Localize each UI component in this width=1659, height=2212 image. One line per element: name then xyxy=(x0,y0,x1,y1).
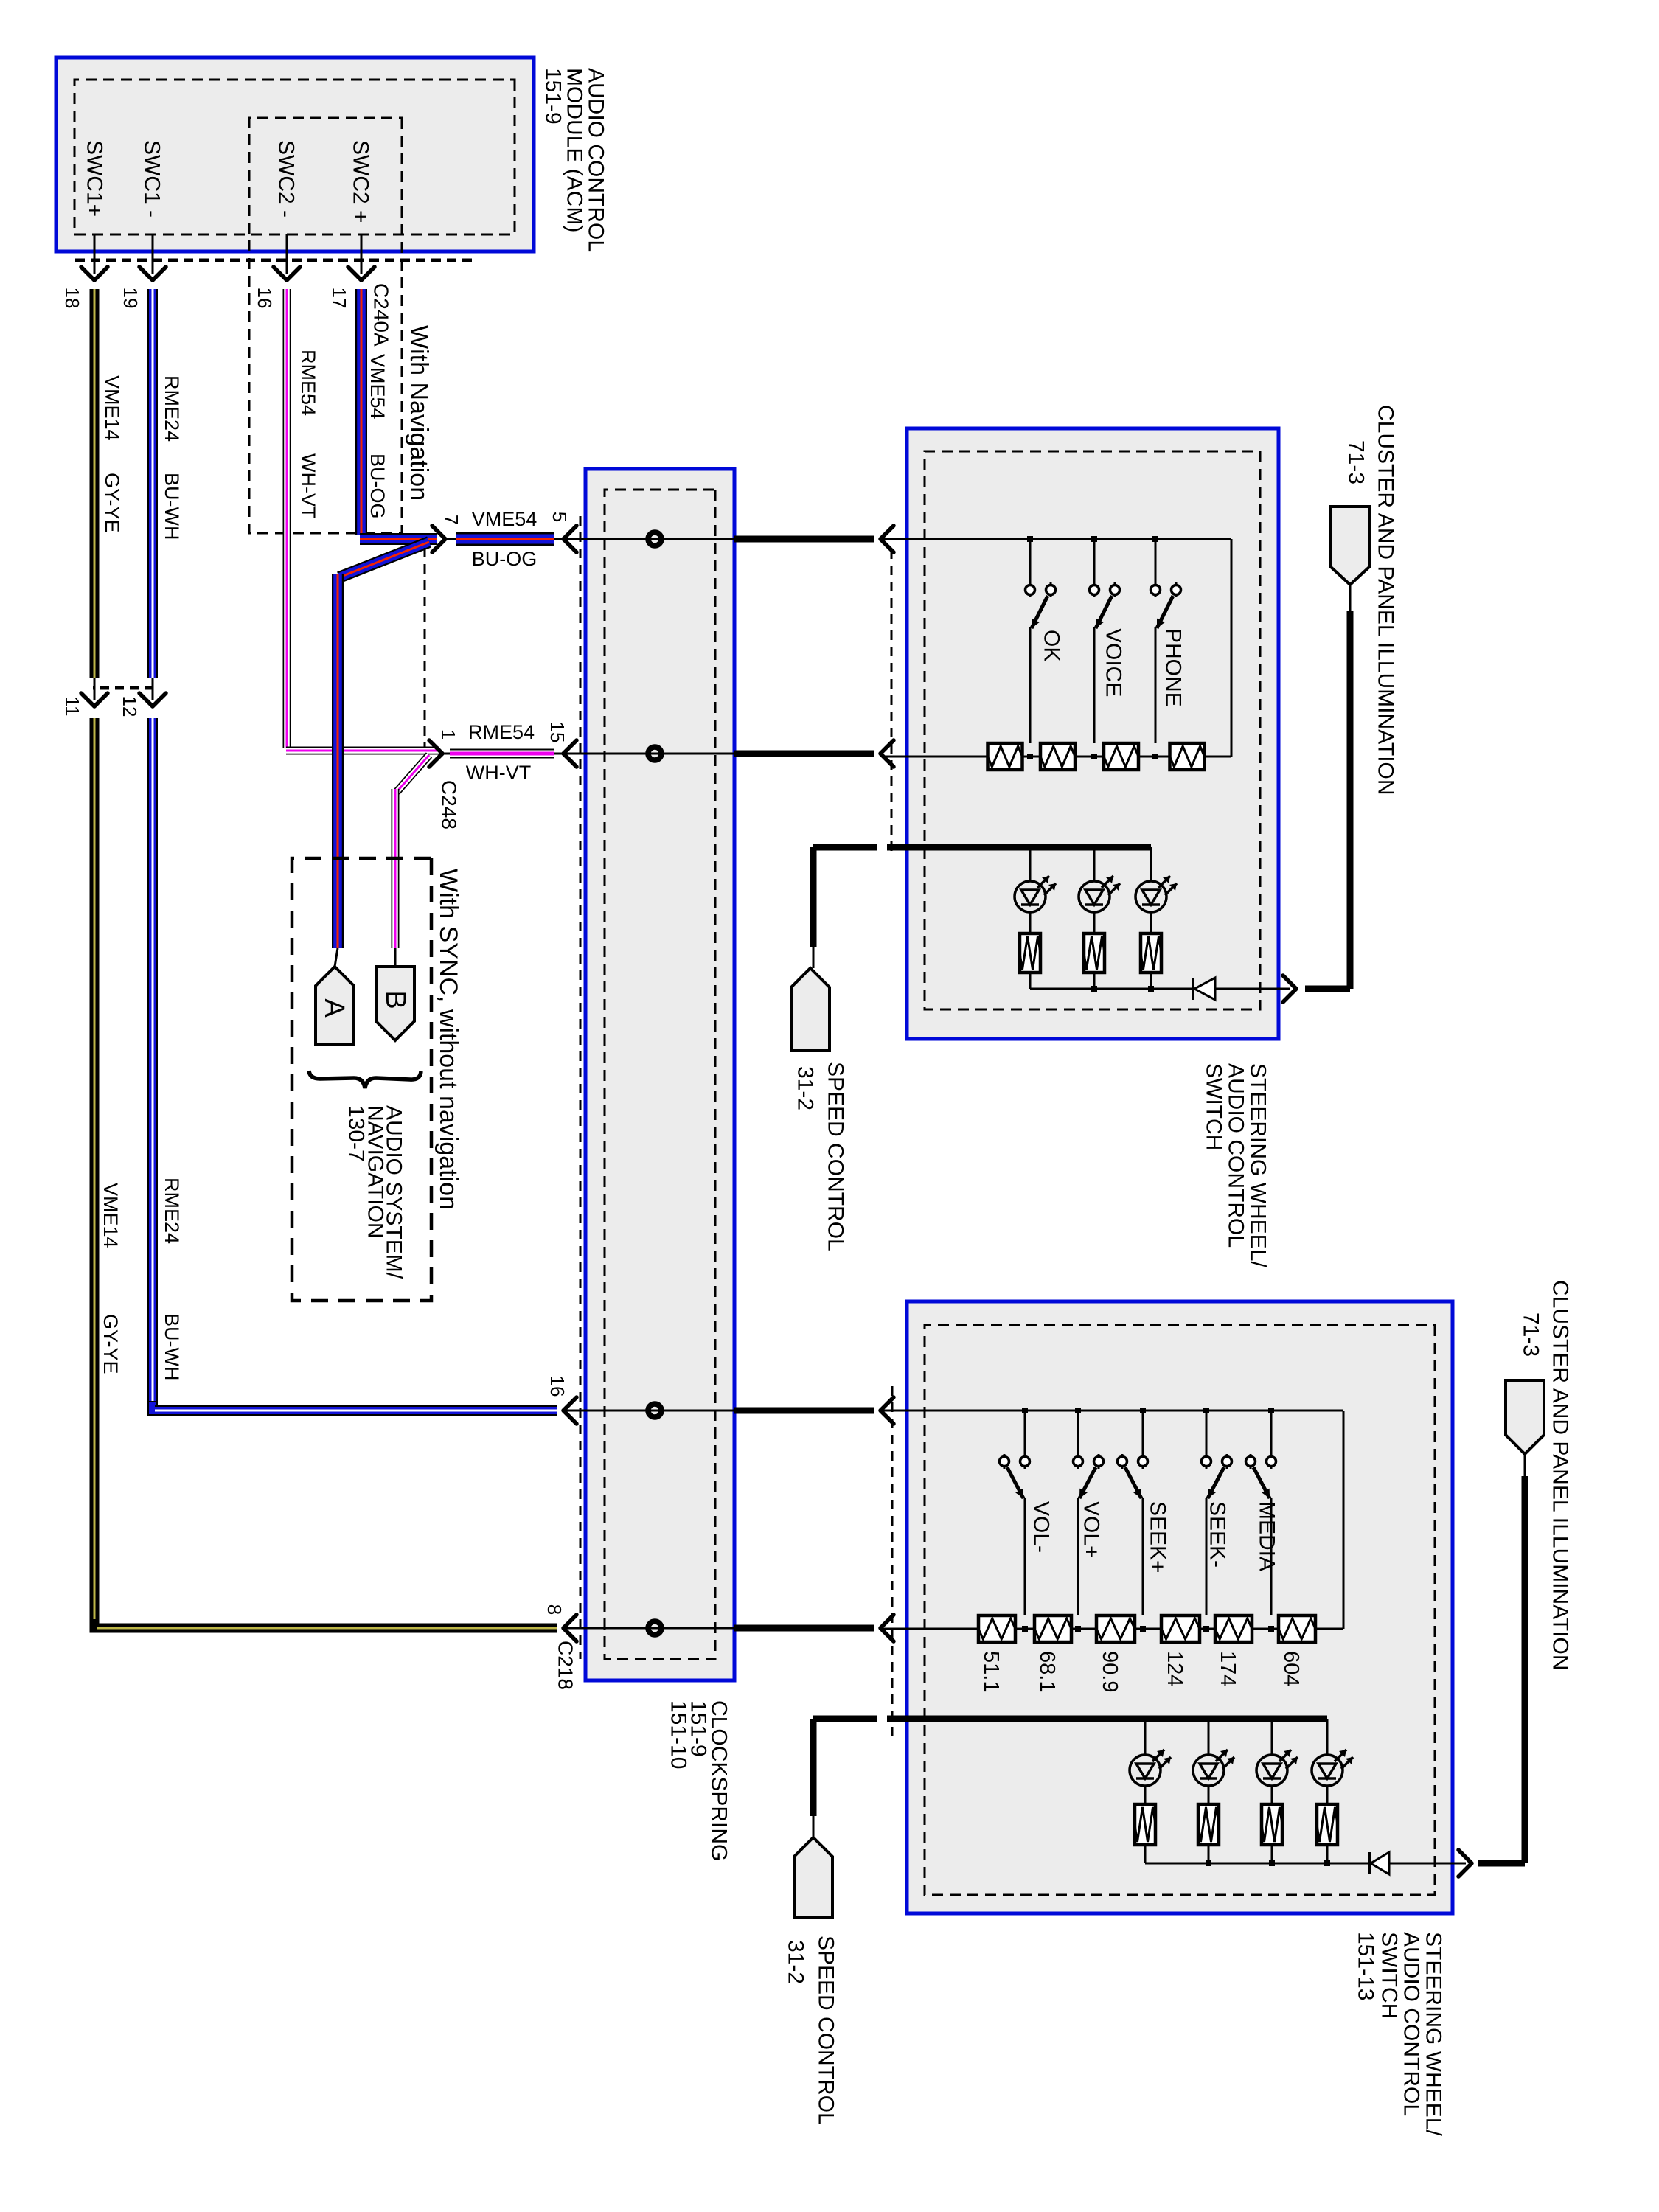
svg-text:VOL+: VOL+ xyxy=(1079,1501,1104,1559)
svg-text:SWITCH: SWITCH xyxy=(1377,1932,1402,2019)
diode (lower) xyxy=(1371,1852,1389,1874)
svg-text:16: 16 xyxy=(254,288,276,309)
ACM title 151-9 xyxy=(541,68,608,252)
svg-text:7: 7 xyxy=(440,515,462,525)
upper box title xyxy=(1202,1063,1270,1267)
switch SEEK+ xyxy=(1118,1408,1148,1632)
pin 15 arrow at clockspring xyxy=(563,740,577,767)
splice arrow 1 xyxy=(429,740,442,767)
connector pin 11 arrow xyxy=(81,678,108,706)
connector A xyxy=(316,967,354,1045)
svg-text:VME14: VME14 xyxy=(100,1183,122,1248)
svg-text:SWC2 -: SWC2 - xyxy=(274,140,299,218)
clockspring path at 731 xyxy=(565,532,874,546)
svg-text:SWC1 -: SWC1 - xyxy=(140,140,164,218)
audio control module (ACM) box xyxy=(56,58,534,251)
svg-text:PHONE: PHONE xyxy=(1161,628,1186,707)
svg-text:C218: C218 xyxy=(554,1641,577,1690)
ACM pin 19 stub and arrow xyxy=(139,234,166,280)
svg-text:OK: OK xyxy=(1040,630,1064,661)
svg-text:51.1: 51.1 xyxy=(979,1651,1003,1692)
svg-text:68.1: 68.1 xyxy=(1035,1651,1059,1692)
clockspring path at 1913 xyxy=(565,1404,874,1417)
svg-text:VME14: VME14 xyxy=(101,375,123,441)
svg-text:BU-OG: BU-OG xyxy=(366,453,389,519)
svg-text:15: 15 xyxy=(546,722,568,743)
LED at 689 xyxy=(1135,847,1177,973)
wire continues arrow xyxy=(880,1615,894,1641)
resistor values xyxy=(979,1651,1303,1692)
svg-text:124: 124 xyxy=(1163,1651,1186,1686)
svg-text:151-10: 151-10 xyxy=(667,1700,691,1769)
ACM connector C240A thick dashed line xyxy=(70,259,472,262)
wire name labels RME24 BU-WH (upper) xyxy=(161,375,183,540)
With SYNC dashed option box xyxy=(292,858,431,1301)
LED at 525 (lower) xyxy=(1256,1719,1298,1845)
cluster and panel illumination connector (upper) xyxy=(1331,507,1369,585)
svg-text:B: B xyxy=(380,990,411,1009)
wire to cluster illumination (lower) xyxy=(1389,1454,1525,1877)
switch MEDIA xyxy=(1246,1408,1276,1632)
svg-text:12: 12 xyxy=(119,696,141,717)
speed control wire (lower) xyxy=(813,1719,877,1837)
svg-text:17: 17 xyxy=(328,288,350,309)
steering wheel audio control switch box (lower) xyxy=(907,1301,1453,1913)
wire continues arrow xyxy=(880,740,894,767)
speed control connector (upper) xyxy=(791,968,829,1051)
svg-text:VOICE: VOICE xyxy=(1102,628,1126,697)
svg-text:31-2: 31-2 xyxy=(784,1940,808,1984)
svg-text:BU-WH: BU-WH xyxy=(161,473,183,540)
wire name labels VME14 GY-YE (lower) xyxy=(100,1183,122,1374)
lower box connector dashed line xyxy=(891,1386,894,1740)
clockspring box xyxy=(585,469,734,1680)
svg-text:RME24: RME24 xyxy=(161,375,183,442)
speed control connector (lower) xyxy=(794,1837,832,1917)
speed control title (upper) xyxy=(793,1062,848,1251)
wire RME24 BU-WH from pin 19 xyxy=(153,289,557,1411)
svg-text:174: 174 xyxy=(1216,1651,1239,1686)
speed control wire (upper) xyxy=(813,847,877,968)
LED at 697 (lower) xyxy=(1130,1719,1171,1845)
wire name labels VME54 BU-OG xyxy=(366,354,389,519)
svg-text:STEERING WHEEL/: STEERING WHEEL/ xyxy=(1422,1932,1446,2136)
wire continues arrow xyxy=(880,526,894,552)
svg-text:VOL-: VOL- xyxy=(1029,1501,1054,1553)
LED at 450 (lower) xyxy=(1312,1719,1353,1845)
switch VOL+ xyxy=(1074,1408,1104,1632)
svg-text:19: 19 xyxy=(119,288,142,309)
svg-text:11: 11 xyxy=(61,697,83,717)
svg-text:VME54: VME54 xyxy=(366,354,389,420)
svg-text:SWC1+: SWC1+ xyxy=(83,140,107,217)
lower LED resistors row wiring xyxy=(1145,1845,1371,1866)
svg-text:SEEK-: SEEK- xyxy=(1206,1501,1230,1568)
svg-text:C240A: C240A xyxy=(370,283,393,347)
LED at 853 xyxy=(1015,847,1056,973)
wire VME54 BU-OG from pin 17 xyxy=(360,289,437,539)
cluster and panel illumination connector (lower) xyxy=(1506,1380,1544,1454)
svg-text:31-2: 31-2 xyxy=(793,1066,818,1110)
speed control title (lower) xyxy=(784,1935,838,2125)
pin 8 arrow at clockspring xyxy=(563,1615,577,1641)
steering wheel audio control switch box (upper) xyxy=(907,428,1279,1039)
svg-text:With Navigation: With Navigation xyxy=(405,325,433,501)
pin 5 arrow at clockspring xyxy=(563,526,577,552)
svg-text:CLUSTER AND PANEL ILLUMINATION: CLUSTER AND PANEL ILLUMINATION xyxy=(1374,405,1398,796)
wire VME54 BU-OG segment to clockspring pin 5 xyxy=(444,538,565,540)
wire name labels RME24 BU-WH (lower) xyxy=(161,1178,183,1380)
svg-text:BU-WH: BU-WH xyxy=(161,1313,183,1380)
svg-text:With SYNC, without navigation: With SYNC, without navigation xyxy=(434,869,462,1210)
svg-text:18: 18 xyxy=(61,288,83,309)
wire continues arrow xyxy=(880,1397,894,1424)
lower box title xyxy=(1354,1932,1446,2136)
wire VME14 GY-YE from pin 18 xyxy=(94,289,557,1628)
connector C248 dashed line xyxy=(424,548,426,748)
svg-text:5: 5 xyxy=(549,512,571,522)
clockspring connector dashed line xyxy=(580,516,582,1659)
branch wire BU-OG to connector A xyxy=(335,542,429,967)
svg-text:151-13: 151-13 xyxy=(1354,1932,1378,2000)
svg-text:RME24: RME24 xyxy=(161,1178,183,1244)
upper LED resistors row wiring xyxy=(1030,973,1194,992)
svg-text:1: 1 xyxy=(437,729,459,740)
svg-text:604: 604 xyxy=(1279,1651,1303,1686)
svg-text:AUDIO CONTROL: AUDIO CONTROL xyxy=(1224,1063,1248,1248)
svg-text:RME54: RME54 xyxy=(468,721,535,743)
svg-text:130-7: 130-7 xyxy=(344,1105,369,1162)
clockspring path at 1022 xyxy=(565,747,874,760)
diode (upper) xyxy=(1194,978,1215,1000)
resistor ladder (lower box) xyxy=(978,1615,1315,1642)
switch OK xyxy=(1026,536,1056,759)
svg-text:AUDIO CONTROL: AUDIO CONTROL xyxy=(1399,1932,1424,2116)
svg-text:STEERING WHEEL/: STEERING WHEEL/ xyxy=(1246,1063,1270,1267)
svg-text:71-3: 71-3 xyxy=(1344,440,1368,484)
wire RME54 WH-VT from pin 16 xyxy=(286,289,439,751)
svg-text:SWITCH: SWITCH xyxy=(1202,1063,1226,1150)
svg-text:GY-YE: GY-YE xyxy=(100,1314,122,1374)
pin 16 arrow at clockspring xyxy=(563,1397,577,1424)
wire name labels RME54 WH-VT xyxy=(297,349,319,518)
svg-text:151-9: 151-9 xyxy=(541,68,566,125)
svg-text:WH-VT: WH-VT xyxy=(466,762,531,784)
brace xyxy=(309,1071,421,1088)
splice arrow 7 xyxy=(432,526,445,552)
LED at 611 (lower) xyxy=(1193,1719,1234,1845)
in-line connector 11/12 dashed bracket xyxy=(93,686,153,690)
resistor ladder (upper box) xyxy=(988,743,1205,770)
ACM pin 18 stub and arrow xyxy=(81,234,108,280)
cluster title (upper) xyxy=(1344,405,1398,796)
svg-text:BU-OG: BU-OG xyxy=(472,548,538,570)
svg-text:SPEED CONTROL: SPEED CONTROL xyxy=(824,1062,848,1251)
svg-text:SWC2 +: SWC2 + xyxy=(349,140,373,223)
upper resistor rail xyxy=(882,756,1231,758)
upper LED illumination rail xyxy=(887,844,1151,850)
svg-text:SPEED CONTROL: SPEED CONTROL xyxy=(814,1935,838,2125)
svg-text:GY-YE: GY-YE xyxy=(101,473,123,533)
lower switch ladder feed rail xyxy=(882,1411,1343,1629)
wire to cluster illumination (upper) xyxy=(1215,585,1350,1002)
svg-text:A: A xyxy=(319,998,349,1018)
upper box connector dashed line xyxy=(891,549,893,855)
With Navigation dashed option box xyxy=(249,118,402,533)
connector B xyxy=(376,967,414,1040)
cluster title (lower) xyxy=(1519,1280,1573,1671)
branch wire WH-VT to connector B xyxy=(395,755,429,967)
wire name labels VME14 GY-YE (upper) xyxy=(101,375,123,533)
label AUDIO SYSTEM / NAVIGATION 130-7 xyxy=(344,1105,406,1279)
svg-text:VME54: VME54 xyxy=(472,508,538,530)
clockspring path at 2208 xyxy=(565,1621,874,1635)
switch PHONE xyxy=(1151,536,1181,759)
lower LED illumination rail xyxy=(887,1716,1327,1722)
svg-text:MEDIA: MEDIA xyxy=(1255,1501,1279,1571)
svg-text:WH-VT: WH-VT xyxy=(297,453,319,518)
wire RME54 WH-VT segment to clockspring pin 15 xyxy=(441,753,565,755)
svg-text:CLUSTER AND PANEL ILLUMINATION: CLUSTER AND PANEL ILLUMINATION xyxy=(1548,1280,1573,1671)
svg-text:8: 8 xyxy=(543,1604,566,1615)
LED at 766 xyxy=(1079,847,1120,973)
svg-text:SEEK+: SEEK+ xyxy=(1146,1501,1170,1573)
svg-text:90.9: 90.9 xyxy=(1098,1651,1121,1692)
svg-text:C248: C248 xyxy=(438,780,461,829)
connector pin 12 arrow xyxy=(139,678,166,706)
lower resistor rail xyxy=(882,1628,1343,1630)
clockspring title xyxy=(667,1700,731,1861)
switch VOL- xyxy=(1000,1408,1030,1632)
ACM pin 16 stub and arrow xyxy=(274,234,300,280)
switch SEEK- xyxy=(1202,1408,1232,1632)
svg-text:RME54: RME54 xyxy=(297,349,319,416)
svg-text:71-3: 71-3 xyxy=(1519,1312,1543,1357)
svg-text:16: 16 xyxy=(546,1376,568,1397)
switch VOICE xyxy=(1090,536,1120,759)
upper switch ladder feed rail xyxy=(882,539,1231,757)
ACM pin 17 stub and arrow xyxy=(348,234,375,280)
